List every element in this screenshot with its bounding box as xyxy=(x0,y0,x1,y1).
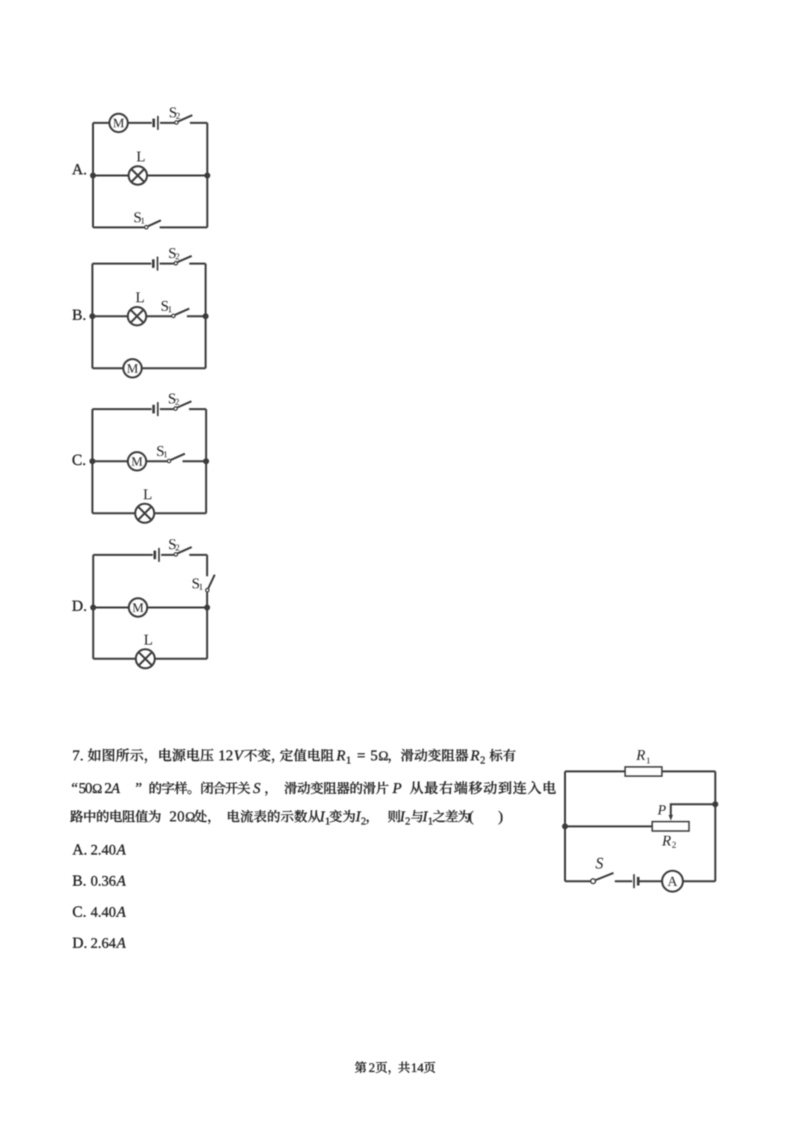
circuit D: wire bottom-left to lamp xyxy=(93,658,136,660)
circuit D: wire right side lower segment xyxy=(206,608,208,659)
circuit B: switch S2 xyxy=(174,262,177,265)
circuit C: wire lamp to bottom-right corner xyxy=(154,512,206,514)
circuit A: wire S2 to top-right corner xyxy=(190,122,207,124)
circuit C: node left junction xyxy=(89,458,95,464)
circuit C: label S1 xyxy=(157,446,163,456)
Q7 circuit: wire top-left to R1 xyxy=(565,770,625,772)
Q7 circuit: wire R1 to top-right corner xyxy=(662,770,715,772)
circuit B: wire S2 to top-right corner xyxy=(189,263,205,265)
circuit D: switch S1 (in right branch) xyxy=(206,589,209,592)
circuit B: battery xyxy=(152,259,155,268)
circuit C: wire left junction to motor xyxy=(92,460,127,462)
circuit D: motor M xyxy=(129,598,147,616)
circuit C: wire motor to switch S1 xyxy=(146,460,167,462)
circuit B: wire bottom-left to motor xyxy=(92,367,123,369)
Q7 circuit: ammeter A xyxy=(662,871,683,892)
circuit B: wire S1 to right junction xyxy=(187,315,206,317)
circuit D: wire S1 to right junction xyxy=(206,592,208,607)
circuit D: wire top-left to battery xyxy=(93,554,153,556)
circuit D: wire lamp to bottom-right corner xyxy=(155,658,207,660)
circuit A: wire lamp to right junction xyxy=(147,175,207,177)
circuit A: wire left junction to lamp xyxy=(93,175,129,177)
circuit A: wire battery to switch S2 xyxy=(160,122,175,124)
circuit C: wire bottom-left to lamp xyxy=(92,512,135,514)
circuit A: node left junction xyxy=(90,173,96,179)
circuit B: label L xyxy=(136,292,144,302)
Q7 circuit: wire left side xyxy=(564,771,566,881)
Q7 circuit: node left junction xyxy=(562,823,568,829)
circuit C: battery xyxy=(152,405,155,414)
circuit A: switch S2 xyxy=(175,121,178,124)
Q7 circuit: wire bottom-left to switch S xyxy=(565,880,590,882)
circuit D: wire S2 to top-right corner xyxy=(189,554,207,556)
Q7 circuit: wire battery to ammeter xyxy=(639,880,662,882)
circuit A: label L xyxy=(137,152,145,162)
Q7 circuit: label R2 xyxy=(662,836,671,846)
circuit C: wire S2 to top-right corner xyxy=(189,408,206,410)
circuit B: label S1 xyxy=(162,301,168,311)
circuit B: node left junction xyxy=(89,313,95,319)
Q7 circuit: wire ammeter to bottom-right corner xyxy=(683,880,715,882)
circuit B: wire lamp to switch S1 xyxy=(146,315,171,317)
circuit B: lamp L xyxy=(128,307,146,325)
Q7 circuit: label R1 xyxy=(636,750,645,760)
circuit A: motor M xyxy=(109,114,127,132)
circuit C: node right junction xyxy=(203,458,209,464)
circuit C: lamp L xyxy=(135,504,154,523)
circuit C: wire S1 to right junction xyxy=(183,460,207,462)
circuit D: node left junction xyxy=(90,605,96,611)
Q7 circuit: battery xyxy=(633,874,635,888)
circuit A: switch S1 xyxy=(145,226,148,229)
circuit D: lamp L xyxy=(136,649,155,668)
Q7 circuit: wiper arrow P xyxy=(669,815,673,821)
circuit B: label S2 xyxy=(169,248,175,258)
circuit A: label S1 xyxy=(134,212,140,222)
circuit C: switch S1 xyxy=(167,459,170,462)
circuit A: wire right side xyxy=(206,123,208,227)
Q7 circuit: resistor R1 xyxy=(625,767,662,776)
circuit D: wire left side xyxy=(92,555,94,659)
Q7 circuit: wire junction to wiper xyxy=(671,804,716,815)
circuit B: wire battery to switch S2 xyxy=(160,263,174,265)
circuit A: wire S1 to bottom-right corner xyxy=(160,226,208,228)
Q7 circuit: wire left junction to R2 xyxy=(565,825,652,827)
circuit A: battery xyxy=(152,119,155,128)
circuit A: label S2 xyxy=(170,107,176,117)
Q7 circuit: wire right side xyxy=(714,771,716,881)
circuit C: motor M xyxy=(128,452,146,470)
circuit D: label L xyxy=(144,635,152,645)
circuit D: node right junction xyxy=(204,605,210,611)
circuit B: wire motor to bottom-right corner xyxy=(142,367,206,369)
circuit D: wire motor to right junction xyxy=(147,607,207,609)
circuit A: wire motor to battery xyxy=(128,122,152,124)
circuit A: lamp L xyxy=(129,166,147,184)
circuit C: wire left side xyxy=(91,409,93,513)
circuit A: wire bottom-left to switch S1 xyxy=(93,226,144,228)
circuit D: battery xyxy=(154,551,157,560)
circuit D: wire battery to switch S2 xyxy=(161,554,174,556)
circuit D: wire left junction to motor xyxy=(93,607,129,609)
circuit B: motor M xyxy=(123,359,141,377)
circuit A: node right junction xyxy=(204,173,210,179)
circuit C: wire top-left to battery xyxy=(92,408,151,410)
circuit B: wire top-left to battery xyxy=(92,263,151,265)
Q7 circuit: switch S xyxy=(591,879,596,884)
circuit D: switch S2 xyxy=(174,553,177,556)
circuit A: wire left side xyxy=(92,123,94,227)
circuit B: wire left side xyxy=(91,264,93,369)
question text and labels xyxy=(70,164,556,1074)
circuit D: wire right side upper segment xyxy=(206,555,208,576)
circuit D: label S1 xyxy=(193,578,199,588)
circuit C: switch S2 xyxy=(174,407,177,410)
circuit C: wire right side xyxy=(205,409,207,513)
circuit C: label L xyxy=(144,489,152,499)
Q7 circuit: label P xyxy=(658,805,666,814)
Q7 circuit: rheostat R2 xyxy=(652,822,689,831)
Q7 circuit: label S xyxy=(596,858,604,869)
circuit B: wire left junction to lamp xyxy=(92,315,127,317)
Q7 circuit: wire S to battery xyxy=(615,880,632,882)
circuit C: wire battery to switch S2 xyxy=(160,408,174,410)
circuit A: wire top-left to motor xyxy=(93,122,109,124)
circuit B: wire right side xyxy=(205,264,207,369)
circuit D: label S2 xyxy=(169,539,175,549)
Q7 circuit: node wiper junction xyxy=(712,801,718,807)
circuit B: switch S1 xyxy=(172,314,175,317)
circuit C: label S2 xyxy=(169,394,175,404)
circuit B: node right junction xyxy=(203,313,209,319)
